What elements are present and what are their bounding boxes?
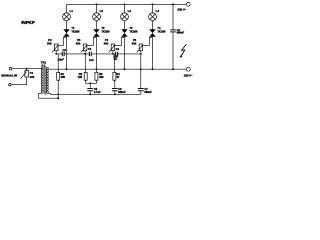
svg-text:680nF: 680nF bbox=[177, 31, 185, 35]
svg-text:100: 100 bbox=[78, 75, 83, 79]
svg-text:100: 100 bbox=[61, 75, 66, 79]
svg-text:220 V~: 220 V~ bbox=[177, 8, 186, 12]
svg-text:500: 500 bbox=[47, 41, 52, 45]
svg-text:C3: C3 bbox=[88, 47, 92, 51]
svg-text:500: 500 bbox=[132, 41, 137, 45]
svg-text:4.7uF: 4.7uF bbox=[94, 90, 101, 94]
svg-text:500: 500 bbox=[104, 41, 109, 45]
svg-text:TIC206: TIC206 bbox=[129, 29, 138, 33]
svg-text:6:1: 6:1 bbox=[41, 64, 46, 68]
svg-text:820nF: 820nF bbox=[118, 90, 126, 94]
svg-text:680nF: 680nF bbox=[144, 90, 152, 94]
svg-text:1uF: 1uF bbox=[89, 58, 94, 62]
svg-text:TIC206: TIC206 bbox=[157, 29, 166, 33]
svg-text:500: 500 bbox=[76, 41, 81, 45]
svg-text:L2: L2 bbox=[100, 9, 104, 13]
svg-text:220: 220 bbox=[30, 75, 35, 79]
svg-text:C2: C2 bbox=[63, 48, 67, 52]
svg-text:TIC206: TIC206 bbox=[101, 29, 110, 33]
svg-text:TIC206: TIC206 bbox=[71, 29, 80, 33]
svg-text:220 V~: 220 V~ bbox=[184, 73, 193, 77]
svg-text:L1: L1 bbox=[70, 9, 74, 13]
svg-text:C4: C4 bbox=[116, 47, 120, 51]
svg-text:L3: L3 bbox=[128, 9, 132, 13]
svg-text:INPKP: INPKP bbox=[21, 20, 35, 25]
svg-text:P1: P1 bbox=[30, 71, 34, 75]
svg-text:L4: L4 bbox=[156, 9, 160, 13]
svg-text:220: 220 bbox=[99, 75, 104, 79]
svg-text:SIGNAAL IN: SIGNAAL IN bbox=[1, 74, 17, 78]
